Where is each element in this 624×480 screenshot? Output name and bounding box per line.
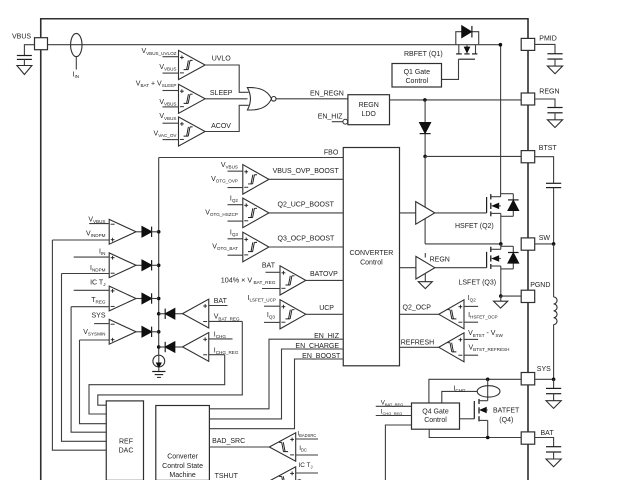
diode ICHG comparator output (159, 342, 183, 352)
wire REGN LDO output to REGN pin (390, 99, 522, 101)
label UVLO (212, 56, 232, 63)
wire EN_BOOST state machine to converter control (209, 353, 343, 429)
wire SLEEP output to NOR gate (205, 98, 247, 100)
label ACOV (211, 123, 231, 130)
svg-text:IC TJ: IC TJ (299, 462, 313, 470)
wire BATOVP output to converter control (306, 271, 343, 281)
junction SYS external node (552, 378, 556, 382)
wire EN_HIZ state machine to converter control (209, 333, 343, 409)
wire REGN to external capacitor (535, 99, 555, 108)
svg-text:PMID: PMID (539, 35, 557, 42)
svg-text:PGND: PGND (530, 282, 550, 289)
junction PMID node (499, 43, 503, 47)
pin REGN (521, 89, 559, 106)
diode BAT comparator output (159, 309, 183, 319)
junction REGN output node (423, 98, 427, 102)
wire BTST node to BTST pin (425, 155, 521, 157)
wire converter control to HSFET driver (400, 212, 416, 214)
capacitor PMID external + ground (547, 54, 562, 74)
comparator BAD_SRC (269, 430, 318, 461)
wire HSFET driver output to gate (435, 212, 487, 214)
junction FBO bus nodes (157, 230, 161, 349)
pin PGND (521, 282, 550, 302)
diode LSFET body (501, 246, 519, 269)
svg-text:Control: Control (406, 78, 429, 85)
wire EN_REGN to REGN LDO (276, 91, 348, 99)
svg-text:REGN: REGN (539, 89, 559, 96)
svg-text:Machine: Machine (169, 472, 196, 479)
comparator Q2_OCP (439, 295, 498, 329)
capacitor BAT external + ground (546, 447, 561, 467)
ground FBO current source (152, 372, 165, 378)
svg-text:TSHUT: TSHUT (215, 473, 239, 480)
wire SW pin to bootstrap cap and inductor (535, 243, 554, 245)
wire BAD_SRC state machine to comparator (209, 438, 269, 447)
transistor LSFET Q3 (459, 244, 501, 296)
wire UCP output to converter control (306, 305, 343, 314)
transistor RBFET Q1 with body diode (404, 26, 479, 59)
svg-text:Control: Control (360, 259, 383, 266)
pin VBUS (12, 33, 48, 49)
diode err-amp VBUS/VINDPM output (136, 227, 159, 237)
wire LSFET driver output to gate (435, 267, 487, 269)
comparator UCP (247, 295, 305, 329)
wire EN_CHARGE state machine to converter control (209, 343, 343, 419)
svg-text:IC TJ: IC TJ (90, 279, 105, 287)
svg-text:Converter: Converter (167, 454, 198, 461)
comparator UVLO (141, 48, 205, 79)
block CONVERTER Control (343, 148, 399, 366)
wire VSYSMIN reference from REF DAC (80, 340, 107, 424)
wire converter control to LSFET driver (400, 267, 416, 269)
svg-text:EN_HIZ: EN_HIZ (314, 333, 340, 340)
svg-text:SYS: SYS (537, 366, 551, 373)
junction LSFET source PGND node (499, 294, 503, 298)
wire RBFET gate to Q1 gate control (442, 59, 459, 79)
svg-text:VBUS_OVP_BOOST: VBUS_OVP_BOOST (273, 168, 340, 175)
svg-text:REF: REF (119, 439, 133, 446)
comparator err-amp IIN/INDPM (62, 249, 137, 278)
wire Q2_UCP_BOOST output to converter control (269, 201, 343, 213)
svg-text:LDO: LDO (361, 111, 376, 118)
wire SW net from driver to HSFET source (425, 243, 501, 245)
wire Q4 gate control lower input (385, 425, 411, 480)
comparator err-amp VBUS/VINDPM (52, 217, 136, 245)
wire Q2_OCP comparator to converter control (400, 304, 439, 314)
wire TREG reference from REF DAC (71, 307, 106, 433)
pin BTST (521, 145, 557, 163)
comparator err-amp SYS/VSYSMIN (80, 313, 137, 345)
pin BAT (521, 430, 554, 444)
wire REFRESH comparator to converter control (400, 339, 439, 347)
current sensor ICHG (477, 379, 500, 400)
svg-text:Q4 Gate: Q4 Gate (422, 408, 449, 415)
svg-text:SW: SW (539, 235, 551, 242)
svg-text:REFRESH: REFRESH (401, 339, 434, 346)
wire VBAT_REG input to Q4 gate control (376, 399, 412, 407)
ground VBUS capacitor (17, 66, 32, 75)
comparator Q3_OCP_BOOST (212, 230, 269, 262)
NOR gate (EN_REGN logic) (247, 88, 276, 110)
comparator ACOV (154, 113, 206, 146)
comparator err-amp ICTJ/TREG (71, 279, 136, 311)
comparator Q2_UCP_BOOST (205, 196, 269, 228)
wire VBAT_REG reference from REF DAC (98, 321, 243, 405)
wire VBUS pin to bypass capacitor (24, 45, 34, 56)
diode bootstrap (REGN to BTST) (420, 123, 431, 134)
diode HSFET body (501, 194, 519, 217)
comparator BATOVP (221, 263, 306, 295)
svg-text:VBUS: VBUS (12, 33, 31, 40)
svg-text:BATFET: BATFET (493, 408, 520, 415)
svg-text:EN_CHARGE: EN_CHARGE (295, 343, 339, 350)
inductor external SW to SYS (554, 244, 557, 379)
svg-text:Control: Control (424, 417, 447, 424)
svg-text:Control State: Control State (162, 463, 203, 470)
wire EN_HIZ input to REGN LDO with inverter bubble (318, 113, 348, 124)
comparator VBUS_OVP_BOOST (211, 162, 269, 194)
svg-text:EN_REGN: EN_REGN (310, 91, 344, 98)
junction BTST node (423, 155, 427, 159)
label SLEEP (210, 90, 233, 97)
block Converter Control State Machine (156, 406, 210, 480)
label TSHUT (215, 473, 239, 480)
wire VINDPM reference from REF DAC (52, 240, 106, 450)
wire FBO feedback line to converter control (159, 149, 344, 157)
capacitor REGN external + ground (547, 108, 562, 128)
wire LSFET driver ground stub (424, 274, 426, 282)
svg-text:UVLO: UVLO (212, 56, 232, 63)
ground LSFET driver (418, 282, 432, 289)
capacitor bootstrap BTST-SW (546, 183, 561, 244)
wire SYS net (429, 379, 521, 403)
wire Q4 gate control to BATFET gate (460, 418, 475, 420)
pin PMID (521, 35, 557, 50)
wire ICHG_REG input to Q4 gate control (376, 409, 412, 417)
block Q1 Gate Control (392, 64, 442, 88)
svg-text:BAT: BAT (214, 298, 228, 305)
block Q4 Gate Control (412, 403, 460, 429)
wire LSFET source ground stub (500, 296, 502, 301)
svg-text:BTST: BTST (539, 145, 558, 152)
svg-text:(Q4): (Q4) (499, 417, 513, 424)
svg-text:REGN: REGN (430, 257, 450, 264)
wire ICHG_REG reference from REF DAC (89, 355, 225, 414)
svg-text:BATOVP: BATOVP (310, 271, 338, 278)
svg-text:BAD_SRC: BAD_SRC (212, 438, 245, 445)
current sensor IIN (71, 33, 82, 79)
wire REGN supply stub to LSFET driver (425, 253, 450, 264)
diode err-amp IIN/INDPM output (136, 260, 159, 270)
wire LSFET source to PGND pin (501, 295, 521, 297)
svg-text:RBFET (Q1): RBFET (Q1) (404, 51, 443, 58)
wire BAT net (429, 429, 521, 437)
wire REGN node to bootstrap diode to BTST node (424, 100, 426, 156)
junction SYS node at BATFET (486, 378, 490, 382)
svg-text:SYS: SYS (91, 313, 105, 320)
svg-text:Q1 Gate: Q1 Gate (404, 69, 431, 76)
wire BTST pin to bootstrap capacitor (535, 157, 554, 184)
wire INDPM reference from REF DAC (62, 274, 107, 442)
wire BTST supply through HSFET driver to SW (424, 156, 426, 244)
wire VBUS net (VBUS pin to RBFET to PMID node) (48, 44, 501, 46)
svg-text:SLEEP: SLEEP (210, 90, 233, 97)
wire UVLO output to NOR gate (205, 65, 249, 92)
wire SYS pin to external cap (535, 378, 554, 380)
wire Q3_OCP_BOOST output to converter control (269, 236, 343, 247)
driver LSFET gate buffer (416, 256, 435, 279)
comparator SLEEP (136, 80, 205, 113)
IC boundary frame wire (41, 19, 528, 480)
svg-text:DAC: DAC (119, 448, 134, 455)
capacitor SYS external + ground (546, 388, 561, 408)
wire BAT pin to external cap (535, 438, 554, 447)
svg-text:HSFET (Q2): HSFET (Q2) (455, 223, 494, 230)
comparator BAT regulation (183, 298, 243, 328)
svg-text:BAT: BAT (262, 263, 276, 270)
junction BAT node at BATFET source (486, 436, 490, 440)
current source FBO bias (153, 355, 165, 371)
wire PMID node down to HSFET drain (500, 45, 502, 197)
capacitor VBUS bypass (17, 56, 32, 66)
wire ICHG sense to Q4 gate control (442, 385, 477, 403)
svg-text:CONVERTER: CONVERTER (349, 250, 393, 257)
diode err-amp SYS/VSYSMIN output (136, 327, 159, 337)
svg-text:Q2_OCP: Q2_OCP (403, 304, 432, 311)
svg-text:FBO: FBO (324, 149, 339, 156)
wire FBO summing bus (158, 158, 160, 356)
comparator REFRESH (439, 330, 510, 362)
svg-text:LSFET (Q3): LSFET (Q3) (459, 279, 497, 286)
svg-text:Q2_UCP_BOOST: Q2_UCP_BOOST (278, 201, 335, 208)
block REF DAC (106, 401, 143, 480)
comparator TSHUT (clipped) (269, 462, 318, 480)
wire ACOV output to NOR gate (205, 105, 249, 131)
pin SYS (521, 366, 551, 385)
block REGN LDO (348, 95, 390, 125)
svg-text:EN_BOOST: EN_BOOST (302, 353, 341, 360)
transistor HSFET Q2 (455, 194, 501, 244)
junction SW node at HSFET source (499, 242, 503, 246)
svg-text:BAT: BAT (541, 430, 555, 437)
svg-text:REGN: REGN (359, 102, 379, 109)
pin SW (521, 235, 550, 250)
wire VBUS_OVP_BOOST output to converter control (269, 168, 343, 180)
svg-text:ACOV: ACOV (211, 123, 231, 130)
transistor BATFET Q4 (474, 399, 520, 438)
wire PMID to external capacitor (535, 44, 555, 53)
svg-text:EN_HIZ: EN_HIZ (318, 113, 344, 120)
svg-text:UCP: UCP (319, 305, 334, 312)
svg-text:Q3_OCP_BOOST: Q3_OCP_BOOST (278, 236, 336, 243)
wire SYS cap stub (553, 379, 555, 388)
driver HSFET gate buffer (416, 202, 435, 225)
diode err-amp ICTJ/TREG output (136, 293, 159, 303)
comparator ICHG regulation (183, 332, 239, 362)
ground LSFET source (494, 301, 508, 308)
junction SW external node (552, 242, 556, 246)
